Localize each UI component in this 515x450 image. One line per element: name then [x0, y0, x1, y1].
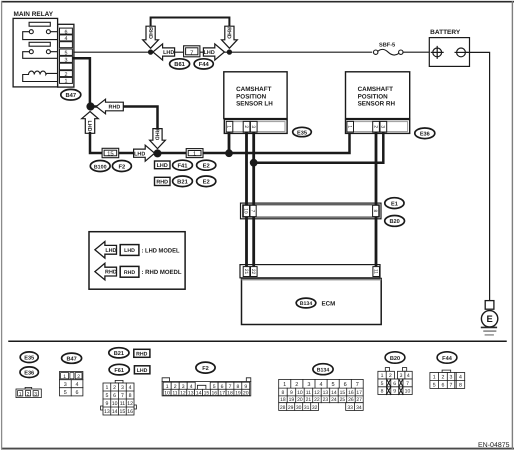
svg-text:28: 28	[280, 405, 286, 411]
svg-text:3: 3	[400, 373, 403, 379]
svg-text:B47: B47	[66, 357, 76, 363]
svg-text:POSITION: POSITION	[236, 93, 267, 100]
battery plus terminal	[433, 48, 442, 57]
arrow LHD right (on main run before junction)	[134, 145, 155, 161]
svg-text:RHD: RHD	[154, 129, 160, 141]
svg-text:LHD: LHD	[105, 248, 116, 254]
svg-text:1: 1	[283, 382, 286, 388]
node: LH sensor pin1 junction	[225, 149, 233, 157]
sensor RH pin 1 cell	[347, 121, 354, 132]
svg-text:F44: F44	[199, 62, 210, 68]
B47 pinout grid	[60, 372, 83, 396]
svg-text:B47: B47	[65, 93, 76, 99]
svg-text:10: 10	[405, 389, 411, 395]
svg-text:1: 1	[226, 125, 232, 128]
svg-text:10: 10	[164, 391, 170, 397]
svg-text:20: 20	[297, 397, 303, 403]
svg-text:6: 6	[344, 382, 347, 388]
relay pin 1	[60, 77, 73, 83]
svg-text:7: 7	[249, 210, 255, 213]
sensor RH pin 3 cell	[380, 121, 387, 132]
svg-text:26: 26	[348, 397, 354, 403]
svg-text:1: 1	[433, 374, 436, 380]
svg-text:16: 16	[211, 391, 217, 397]
svg-text:17: 17	[219, 391, 225, 397]
svg-text:12: 12	[314, 390, 320, 396]
fuse SBF-5 right terminal	[399, 50, 403, 54]
connector B20 ellipse (pinout)	[385, 352, 405, 363]
svg-text:SENSOR RH: SENSOR RH	[358, 101, 396, 108]
border frame	[1, 1, 514, 3]
connector B20 ellipse	[385, 216, 405, 227]
svg-text:RHD: RHD	[226, 27, 232, 39]
camshaft position sensor LH body	[224, 72, 287, 119]
svg-text:LHD: LHD	[137, 368, 148, 374]
svg-text:6: 6	[441, 382, 444, 388]
svg-text:8: 8	[459, 382, 462, 388]
svg-text:22: 22	[250, 269, 256, 275]
bar pin 10 cell	[243, 205, 249, 216]
svg-text:5: 5	[381, 381, 384, 387]
wire: battery to ground E	[465, 52, 489, 300]
svg-text:BATTERY: BATTERY	[430, 29, 461, 36]
svg-text:F44: F44	[442, 356, 453, 362]
node: bypass right junction	[227, 49, 232, 54]
svg-text:5: 5	[332, 382, 335, 388]
svg-text:8: 8	[381, 389, 384, 395]
node: relay branch junction	[86, 102, 94, 110]
relay pin 3	[60, 56, 73, 62]
svg-text:B20: B20	[390, 356, 400, 362]
svg-text:3: 3	[64, 382, 67, 388]
svg-text:7: 7	[190, 50, 193, 57]
sensor LH pin 2 cell	[243, 121, 250, 132]
connector E2 ellipse (LHD row)	[197, 160, 216, 170]
svg-text:LHD: LHD	[204, 50, 215, 56]
connector 7 inline (B61-F44)	[184, 46, 200, 57]
LHD tag (pinout)	[134, 366, 150, 374]
ECM B134 ellipse	[296, 298, 316, 308]
svg-text:2: 2	[174, 384, 177, 390]
bar pin 7 cell	[250, 205, 256, 216]
arrow LHD right (top, right of connector 7)	[203, 44, 224, 60]
svg-text:6: 6	[221, 384, 224, 390]
svg-text:24: 24	[331, 397, 337, 403]
svg-text:3: 3	[34, 391, 37, 397]
svg-text:18: 18	[227, 391, 233, 397]
svg-text:5: 5	[105, 393, 108, 399]
svg-text:13: 13	[323, 390, 329, 396]
svg-text:5: 5	[433, 382, 436, 388]
svg-text:E: E	[486, 313, 492, 324]
arrow RHD down (bypass right)	[222, 26, 238, 48]
svg-text:B61: B61	[174, 61, 185, 68]
svg-text:9: 9	[393, 389, 396, 395]
relay contact 2 wiring	[23, 52, 58, 59]
svg-text:3: 3	[182, 384, 185, 390]
svg-text:RHD: RHD	[156, 180, 168, 186]
connector B21 ellipse (pinout)	[109, 348, 129, 358]
relay pin 6	[60, 28, 73, 34]
svg-text:1: 1	[166, 384, 169, 390]
wire: shield link LH pin3 to RH pin3	[254, 133, 384, 162]
svg-text:LHD: LHD	[134, 151, 145, 157]
svg-text:13: 13	[188, 391, 194, 397]
svg-text:B134: B134	[317, 367, 330, 373]
svg-text:E2: E2	[203, 163, 210, 170]
svg-text:2: 2	[295, 382, 298, 388]
B134 pinout grid	[279, 379, 364, 402]
svg-text:7: 7	[356, 382, 359, 388]
wire: LH sensor pin1 drop	[228, 133, 231, 151]
RHD tag (pinout)	[134, 349, 150, 357]
svg-text:EN-04875: EN-04875	[478, 442, 510, 449]
svg-text:23: 23	[323, 397, 329, 403]
arrow LHD left (top, left of connector 7)	[153, 44, 175, 60]
svg-text:RHD: RHD	[147, 27, 153, 39]
svg-text:1: 1	[19, 391, 22, 397]
svg-text:SBF-5: SBF-5	[379, 43, 395, 49]
svg-text:15: 15	[107, 151, 114, 158]
svg-text:RHD: RHD	[109, 105, 121, 111]
wire: RHD bypass loop top	[151, 18, 230, 27]
E35/E36 pinout connector	[25, 387, 32, 389]
svg-text:4: 4	[319, 382, 322, 388]
ECM pin 21 cell	[243, 267, 250, 277]
node: shield junction on LH pin3	[250, 159, 258, 167]
camshaft position sensor RH body	[346, 72, 410, 119]
relay contact 2 terminal circle right	[46, 50, 50, 54]
connector F44 ellipse	[194, 59, 213, 69]
fuse SBF-5 left terminal	[374, 50, 378, 54]
fuse SBF-5 fusible link	[378, 49, 399, 55]
relay contact 1 terminal circle left	[29, 30, 33, 34]
connector B47 ellipse (pinout)	[62, 353, 82, 363]
svg-text:ECM: ECM	[322, 301, 336, 308]
svg-text:6: 6	[113, 393, 116, 399]
svg-text:LHD: LHD	[124, 248, 135, 254]
sensor RH connector strip	[346, 120, 410, 134]
connector F41 ellipse	[173, 160, 193, 170]
svg-text:4: 4	[407, 373, 410, 379]
battery BAT body	[429, 38, 469, 67]
svg-text:11: 11	[373, 269, 379, 274]
relay connector B47 outer	[58, 24, 74, 87]
svg-text:2: 2	[441, 374, 444, 380]
relay coil	[23, 71, 58, 81]
connector B61 ellipse	[170, 59, 190, 69]
svg-text:E1: E1	[391, 201, 398, 207]
ECM pin 22 cell	[251, 267, 258, 277]
svg-text:LHD: LHD	[157, 163, 168, 169]
connector E2 ellipse (RHD row)	[197, 176, 216, 187]
svg-text:15: 15	[120, 409, 126, 415]
svg-text:15: 15	[340, 390, 346, 396]
connector F44 ellipse (pinout)	[437, 352, 457, 363]
svg-text:F41: F41	[178, 164, 189, 170]
legend box	[89, 232, 185, 290]
connector 1 inline (F41-E2 / B21-E2)	[186, 149, 203, 158]
svg-text:30: 30	[296, 405, 302, 411]
svg-text:RHD: RHD	[124, 270, 135, 276]
svg-text:12: 12	[180, 391, 186, 397]
connector E1/B20 bar	[241, 203, 382, 219]
svg-text:31: 31	[304, 405, 310, 411]
svg-text:MAIN RELAY: MAIN RELAY	[14, 11, 54, 18]
svg-text:16: 16	[127, 409, 133, 415]
svg-text:1: 1	[346, 125, 352, 128]
svg-text:32: 32	[312, 405, 318, 411]
svg-text:E35: E35	[297, 130, 307, 136]
connector E1 ellipse	[385, 198, 404, 209]
svg-text:20: 20	[243, 391, 249, 397]
F2 pinout connector 20pin	[162, 378, 251, 382]
svg-text:4: 4	[129, 385, 132, 391]
wire: relay pin3 thick feed down	[74, 58, 90, 104]
relay pin 2	[60, 71, 73, 77]
ground E circle	[481, 311, 497, 327]
relay contact 2 terminal circle left	[29, 50, 33, 54]
svg-text:2: 2	[389, 373, 392, 379]
svg-text:14: 14	[331, 390, 337, 396]
connector E35 ellipse (pinout)	[20, 352, 38, 363]
connector B21 ellipse (RHD row)	[173, 176, 193, 187]
svg-text:14: 14	[112, 409, 118, 415]
BOTTOM SECTION	[9, 341, 510, 449]
connector F2 ellipse	[112, 161, 131, 172]
svg-text:11: 11	[172, 391, 177, 397]
separator line	[9, 340, 506, 342]
relay contact 2 movable bar	[29, 42, 50, 46]
svg-text:2: 2	[77, 374, 80, 380]
svg-text:29: 29	[288, 405, 294, 411]
arrow LHD up (below relay branch junction)	[82, 112, 99, 134]
svg-text:5: 5	[65, 51, 68, 57]
svg-text:10: 10	[112, 401, 118, 407]
svg-text:B100: B100	[94, 164, 107, 170]
svg-text:: LHD MODEL: : LHD MODEL	[142, 247, 180, 254]
svg-text:6: 6	[393, 381, 396, 387]
arrow RHD down (bypass left)	[143, 26, 159, 48]
svg-text:4: 4	[459, 374, 462, 380]
connector E35 ellipse	[293, 127, 312, 136]
svg-text:7: 7	[406, 381, 409, 387]
svg-text:B21: B21	[177, 179, 188, 186]
svg-text:16: 16	[348, 390, 354, 396]
sensor LH pin 1 cell	[226, 121, 233, 132]
svg-text:2: 2	[243, 125, 249, 128]
connector 15 inline (B100-F2)	[102, 148, 119, 157]
svg-text:18: 18	[280, 397, 286, 403]
svg-text:19: 19	[235, 391, 241, 397]
svg-text:8: 8	[282, 390, 285, 396]
svg-text:: RHD MOEDL: : RHD MOEDL	[142, 269, 182, 276]
relay blank cell	[60, 42, 73, 48]
svg-text:8: 8	[236, 384, 239, 390]
connector E36 ellipse (pinout)	[20, 367, 38, 378]
node: bypass left junction	[148, 49, 153, 54]
relay contact 1 terminal circle right	[46, 30, 50, 34]
legend LHD tag box	[120, 245, 139, 256]
svg-text:RHD: RHD	[136, 352, 147, 358]
svg-text:2: 2	[27, 391, 30, 397]
svg-text:POSITION: POSITION	[358, 93, 389, 100]
B21/F61 pinout grid 4x4	[115, 380, 123, 383]
svg-text:22: 22	[314, 397, 320, 403]
svg-text:LHD: LHD	[86, 120, 92, 131]
relay contact 1 movable bar	[29, 22, 50, 26]
wire: junction to the right then down	[92, 107, 158, 129]
svg-text:7: 7	[121, 393, 124, 399]
svg-text:7: 7	[450, 382, 453, 388]
svg-text:14: 14	[196, 391, 202, 397]
svg-text:9: 9	[105, 401, 108, 407]
sensor RH pin 2 cell	[373, 121, 380, 132]
svg-text:F2: F2	[202, 366, 209, 372]
svg-text:F61: F61	[114, 368, 124, 374]
svg-text:1: 1	[63, 374, 66, 380]
svg-text:CAMSHAFT: CAMSHAFT	[358, 86, 393, 93]
svg-text:E35: E35	[24, 356, 34, 362]
svg-text:6: 6	[76, 390, 79, 396]
svg-text:11: 11	[306, 390, 311, 396]
connector E36 ellipse	[415, 128, 435, 139]
relay pin 4	[60, 35, 73, 41]
svg-text:3: 3	[450, 374, 453, 380]
svg-text:E36: E36	[420, 132, 430, 138]
relay contact 1 wiring	[23, 32, 58, 40]
ground hatch lines	[482, 326, 497, 328]
svg-text:CAMSHAFT: CAMSHAFT	[236, 86, 271, 93]
svg-text:2: 2	[113, 385, 116, 391]
svg-text:RHD: RHD	[105, 270, 117, 276]
svg-text:13: 13	[104, 409, 110, 415]
legend RHD tag box	[120, 266, 139, 277]
svg-text:1: 1	[65, 79, 68, 85]
connector B100 ellipse	[90, 161, 110, 172]
ECM pin 11 cell	[373, 267, 380, 277]
svg-text:B21: B21	[114, 351, 124, 357]
connector F2 ellipse (pinout)	[196, 362, 215, 373]
F44 pinout grid	[442, 370, 451, 372]
svg-text:12: 12	[127, 401, 133, 407]
wire: LH sensor pin2 to ECM 21	[245, 133, 248, 264]
svg-text:21: 21	[306, 397, 312, 403]
svg-text:15: 15	[204, 391, 210, 397]
ground connector box	[485, 301, 494, 310]
svg-text:3: 3	[121, 385, 124, 391]
relay pin 5	[60, 49, 73, 55]
svg-text:E2: E2	[203, 179, 210, 186]
svg-text:F2: F2	[119, 163, 126, 170]
svg-text:2: 2	[372, 125, 378, 128]
relay blank cell 2	[60, 63, 73, 70]
wire: LHD branch down to main run	[90, 133, 350, 153]
legend arrow LHD	[95, 242, 117, 259]
main relay body	[13, 18, 58, 87]
arrow RHD down (onto main run junction)	[150, 129, 166, 149]
svg-text:25: 25	[340, 397, 346, 403]
wire: relay pin5 to SBF-5 (thin power wire)	[74, 51, 433, 53]
sensor LH pin 3 cell	[250, 121, 257, 132]
svg-text:LHD: LHD	[163, 50, 174, 56]
svg-text:9: 9	[290, 390, 293, 396]
svg-text:33: 33	[347, 405, 353, 411]
svg-text:34: 34	[356, 405, 362, 411]
svg-text:B20: B20	[389, 219, 399, 225]
svg-text:10: 10	[297, 390, 303, 396]
sensor LH connector strip	[224, 120, 287, 134]
svg-text:3: 3	[250, 125, 256, 128]
ECM connector bar	[240, 265, 380, 278]
svg-text:21: 21	[243, 269, 249, 275]
legend arrow RHD	[95, 263, 117, 280]
wire: LH sensor pin3 to ECM 22	[252, 133, 255, 264]
svg-text:3: 3	[380, 125, 386, 128]
B20 pinout grid	[385, 368, 389, 372]
svg-text:17: 17	[356, 390, 362, 396]
svg-text:11: 11	[120, 401, 125, 407]
LHD model tag box	[155, 161, 171, 169]
connector B134 ellipse (pinout)	[313, 364, 333, 375]
wire: RH sensor pin2 to ECM 11	[375, 133, 378, 264]
svg-text:1: 1	[381, 373, 384, 379]
svg-text:10: 10	[243, 208, 249, 214]
svg-text:3: 3	[307, 382, 310, 388]
bar pin 8 cell	[373, 205, 379, 216]
arrow RHD left (at relay branch junction)	[96, 99, 123, 114]
battery minus terminal	[457, 48, 466, 57]
svg-text:E36: E36	[24, 371, 34, 377]
svg-text:9: 9	[244, 384, 247, 390]
RHD model tag box	[155, 177, 171, 185]
svg-text:19: 19	[289, 397, 295, 403]
svg-text:7: 7	[229, 384, 232, 390]
svg-text:4: 4	[76, 382, 79, 388]
svg-text:8: 8	[372, 210, 378, 213]
svg-text:1: 1	[193, 151, 196, 158]
svg-text:4: 4	[190, 384, 193, 390]
svg-text:1: 1	[105, 385, 108, 391]
svg-text:5: 5	[213, 384, 216, 390]
svg-text:SENSOR LH: SENSOR LH	[236, 101, 273, 108]
svg-text:B134: B134	[300, 301, 313, 307]
ECM box	[242, 279, 382, 325]
svg-text:8: 8	[129, 393, 132, 399]
connector B47 ellipse	[61, 89, 81, 100]
node: main run junction	[154, 149, 162, 157]
svg-text:27: 27	[356, 397, 362, 403]
connector F61 ellipse (pinout)	[109, 364, 129, 375]
svg-text:5: 5	[64, 390, 67, 396]
